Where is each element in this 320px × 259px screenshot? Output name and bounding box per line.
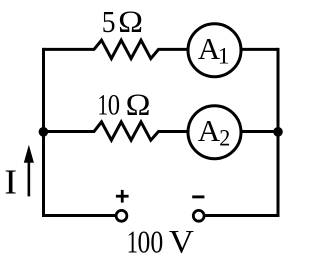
svg-text:0: 0: [108, 88, 120, 121]
svg-text:1: 1: [127, 225, 138, 259]
svg-text:Ω: Ω: [126, 86, 151, 121]
svg-text:5: 5: [102, 5, 116, 39]
svg-text:1: 1: [98, 88, 108, 122]
svg-text:0: 0: [150, 225, 163, 259]
svg-text:V: V: [169, 224, 195, 259]
svg-text:2: 2: [219, 125, 230, 151]
svg-text:Ω: Ω: [118, 4, 143, 39]
svg-text:0: 0: [138, 225, 151, 259]
svg-text:I: I: [4, 162, 17, 201]
svg-text:A: A: [198, 113, 221, 148]
svg-text:1: 1: [218, 44, 230, 70]
